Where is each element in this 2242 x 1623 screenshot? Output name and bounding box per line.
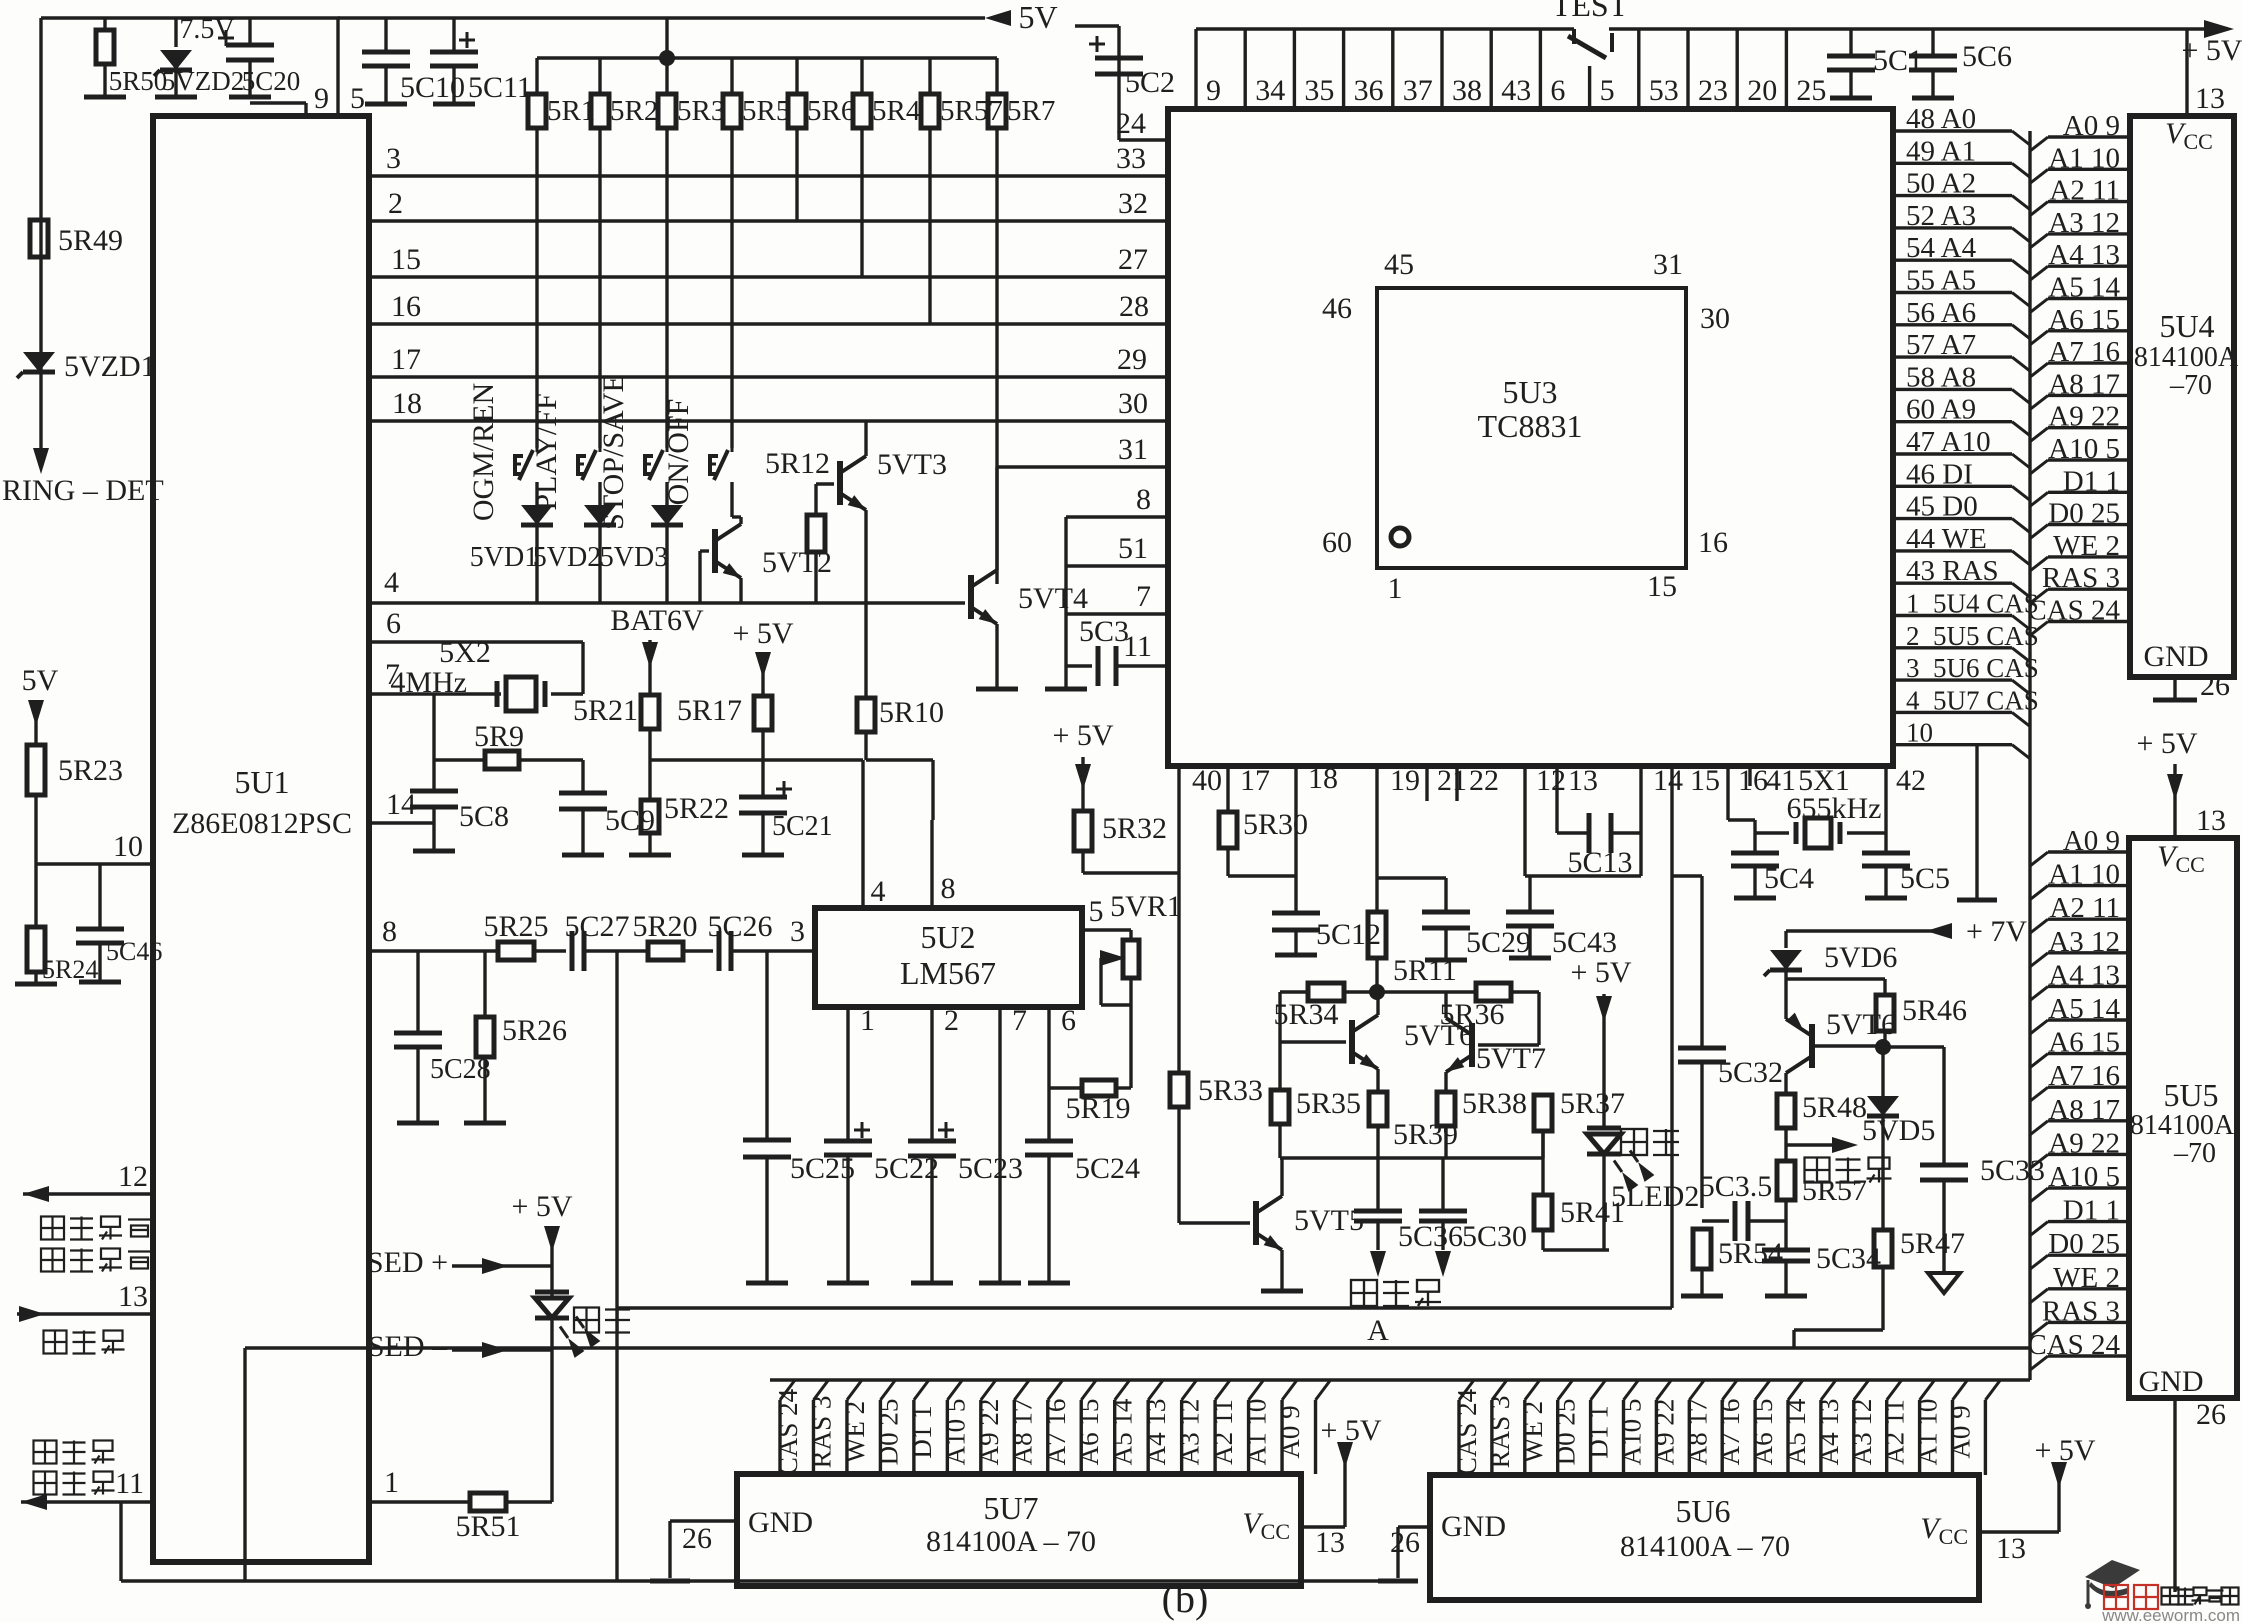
svg-text:5R21: 5R21 (573, 694, 638, 727)
wire 5VT6R emitter (1784, 979, 1787, 1019)
wire 5U2 pin7 (979, 1004, 1027, 1283)
resistor 5R23 (27, 745, 123, 864)
pin9 stub 5U1 (250, 82, 329, 116)
svg-text:30: 30 (1700, 302, 1730, 335)
diode 5VD2 (533, 482, 616, 603)
svg-text:RAS 3: RAS 3 (1485, 1396, 1515, 1469)
svg-text:11: 11 (115, 1467, 144, 1500)
svg-text:28: 28 (1119, 290, 1149, 323)
resistor 5R7 (988, 58, 1055, 128)
svg-text:814100A: 814100A (2130, 1110, 2235, 1141)
crystal 5X2 (390, 636, 545, 711)
resistor 5R19 (1049, 1080, 1131, 1125)
wire +5V LED2 (1570, 956, 1631, 1128)
svg-text:GND: GND (1441, 1510, 1506, 1543)
IC 5U3 TC8831 outer (1168, 109, 1893, 766)
wire 5U2 pin2 (932, 1004, 959, 1141)
svg-text:5R19: 5R19 (1065, 1092, 1130, 1125)
svg-text:5R10: 5R10 (879, 696, 944, 729)
svg-text:5R17: 5R17 (677, 694, 742, 727)
svg-text:+ 5V: + 5V (2136, 727, 2197, 760)
svg-text:5U1: 5U1 (234, 764, 289, 800)
svg-text:5R7: 5R7 (1007, 95, 1055, 127)
label msg-out (1351, 1280, 1441, 1306)
resistor 5R35 (1271, 1042, 1361, 1158)
svg-text:+ 5V: + 5V (1052, 719, 1113, 752)
svg-text:4MHz: 4MHz (390, 666, 467, 699)
svg-text:5R49: 5R49 (58, 224, 123, 257)
svg-text:5C3: 5C3 (1079, 615, 1129, 648)
svg-text:D0 25: D0 25 (1551, 1399, 1581, 1466)
svg-text:5C29: 5C29 (1466, 926, 1531, 959)
capacitor 5C8 (372, 788, 509, 851)
svg-text:5C30: 5C30 (1462, 1220, 1527, 1253)
wire 5C33 branch (1883, 1047, 1944, 1165)
wire 12-14 (1525, 874, 1641, 877)
wire 5U5 GND stub (2175, 1398, 2226, 1592)
svg-text:5R2: 5R2 (610, 95, 658, 127)
RING-DET arrow (2, 448, 164, 507)
IC 5U7 814100A-70 (737, 1474, 1301, 1586)
capacitor 5C29 (1422, 912, 1531, 960)
wire 5R10 bottom (866, 760, 933, 820)
svg-text:3: 3 (790, 915, 805, 948)
svg-text:5C21: 5C21 (772, 811, 833, 842)
capacitor 5C12 (1272, 913, 1381, 955)
svg-text:12: 12 (118, 1160, 148, 1193)
svg-text:16: 16 (1698, 526, 1728, 559)
svg-text:31: 31 (1118, 433, 1148, 466)
svg-text:5C46: 5C46 (106, 937, 162, 966)
wire 5C32 top jog (1672, 874, 1702, 877)
capacitor 5C30 (1419, 1158, 1527, 1277)
pin 23 5U3 top (1688, 29, 1728, 109)
svg-text:8: 8 (941, 872, 956, 905)
svg-text:1: 1 (1388, 572, 1403, 605)
svg-text:A7 16: A7 16 (1715, 1399, 1745, 1466)
resistor 5R38 (1437, 1087, 1527, 1158)
wire LED col (550, 1318, 553, 1502)
resistor 5R20 (632, 910, 713, 960)
wire 5VT7 collector (1444, 992, 1447, 1018)
svg-text:A0 9: A0 9 (1946, 1405, 1976, 1458)
switch ON/OFF (662, 399, 732, 506)
wire 5VT7 emitter (1444, 1072, 1447, 1092)
svg-text:31: 31 (1653, 248, 1683, 281)
wire 5R6 col (795, 128, 798, 221)
svg-text:A1 10: A1 10 (1242, 1399, 1272, 1466)
label (b) (1162, 1576, 1209, 1621)
svg-text:+ 5V: + 5V (2181, 34, 2242, 67)
svg-text:5R37: 5R37 (1560, 1087, 1625, 1120)
svg-text:5VD2: 5VD2 (533, 542, 601, 573)
svg-text:5C26: 5C26 (707, 910, 772, 943)
diode 5VD5 (1862, 1096, 1935, 1230)
svg-text:15: 15 (1647, 570, 1677, 603)
svg-text:19: 19 (1390, 764, 1420, 797)
svg-text:26: 26 (682, 1522, 712, 1555)
svg-text:5R57: 5R57 (1802, 1174, 1867, 1207)
wire net 16-28 (372, 290, 1168, 324)
pin 17 5U3 (1228, 764, 1270, 812)
IC 5U5 814100A-70 (2129, 838, 2237, 1398)
svg-text:5R46: 5R46 (1902, 994, 1967, 1027)
label record-control (41, 1217, 151, 1272)
resistor 5R50 (84, 18, 167, 97)
wire resistor bank bus (537, 18, 997, 66)
svg-text:5C11: 5C11 (468, 71, 532, 104)
svg-text:A6 15: A6 15 (1748, 1399, 1778, 1466)
wire 5V rail (338, 0, 1119, 35)
wire 5U6 Vcc (1979, 1434, 2096, 1565)
resistor 5R24 (15, 864, 98, 984)
svg-text:TEST: TEST (1552, 0, 1629, 23)
svg-text:8: 8 (1136, 483, 1151, 516)
svg-text:A9 22: A9 22 (1649, 1399, 1679, 1466)
svg-text:5R32: 5R32 (1102, 812, 1167, 845)
svg-text:A10 5: A10 5 (940, 1399, 970, 1466)
resistor 5R11 (1368, 912, 1457, 992)
wire 5R57 col (928, 128, 931, 324)
svg-text:WE 2: WE 2 (840, 1401, 870, 1463)
resistor 5R37 (1534, 1087, 1625, 1158)
svg-text:5VD6: 5VD6 (1824, 941, 1897, 974)
crystal 5X1 (1755, 764, 1886, 848)
svg-text:2: 2 (944, 1004, 959, 1037)
svg-text:13: 13 (1568, 764, 1598, 797)
svg-text:5R48: 5R48 (1802, 1091, 1867, 1124)
svg-text:+ 5V: + 5V (1570, 956, 1631, 989)
svg-text:5VD3: 5VD3 (600, 542, 668, 573)
capacitor 5C43 (1506, 876, 1617, 959)
svg-text:5V: 5V (22, 664, 59, 697)
wire 5VT4 collector (995, 467, 998, 570)
svg-text:814100A: 814100A (2134, 342, 2239, 373)
resistor 5R4 (853, 58, 921, 128)
wire net 7 (1066, 580, 1168, 614)
resistor 5R49 (30, 220, 123, 257)
svg-text:5VT5: 5VT5 (1294, 1204, 1364, 1237)
wire bottom rail (121, 1579, 1398, 1582)
svg-text:38: 38 (1452, 74, 1482, 107)
label +5V top right (2181, 34, 2242, 67)
svg-text:42: 42 (1896, 764, 1926, 797)
svg-text:A6 15: A6 15 (1074, 1399, 1104, 1466)
resistor 5R57b (1777, 1161, 1867, 1250)
resistor 5R54 (1681, 1229, 1783, 1296)
wire top rail left (41, 18, 340, 452)
IC 5U2 LM567 (815, 908, 1082, 1007)
svg-text:9: 9 (1206, 74, 1221, 107)
svg-text:9: 9 (314, 82, 329, 115)
transistor 5VT2 (700, 517, 832, 603)
transistor 5VT7 (1446, 1018, 1546, 1075)
pin 19 5U3 (1377, 764, 1420, 912)
svg-text:2: 2 (388, 187, 403, 220)
svg-text:A4 13: A4 13 (1814, 1399, 1844, 1466)
wire 5VT6L collector (1376, 992, 1379, 1015)
wire 5U7 Vcc (1301, 1414, 1382, 1559)
svg-text:5C8: 5C8 (459, 800, 509, 833)
svg-text:5X2: 5X2 (439, 636, 491, 669)
svg-text:5: 5 (1600, 74, 1615, 107)
svg-text:6: 6 (386, 607, 401, 640)
capacitor 5C10 (362, 18, 465, 104)
capacitor 5C9 (559, 760, 655, 855)
svg-text:34: 34 (1255, 74, 1285, 107)
wire 5VT5 collector (1280, 1158, 1283, 1196)
svg-text:32: 32 (1118, 187, 1148, 220)
pin5 stub 5U1 (338, 18, 365, 116)
svg-text:D1 1: D1 1 (907, 1405, 937, 1458)
LED playback (535, 1266, 630, 1358)
pin 41 5U3 (1750, 764, 1796, 797)
wire 5R4 col (860, 128, 863, 277)
svg-text:5VD5: 5VD5 (1862, 1114, 1935, 1147)
svg-text:6: 6 (1550, 74, 1565, 107)
wire netA long (245, 1314, 2030, 1348)
svg-text:TC8831: TC8831 (1478, 408, 1583, 444)
capacitor 5C11 (430, 18, 532, 104)
svg-text:5VZD2: 5VZD2 (162, 66, 245, 96)
resistor 5R39 (1369, 1092, 1458, 1211)
svg-text:5VR1: 5VR1 (1110, 890, 1182, 923)
resistor 5R21 (573, 694, 659, 800)
pin 5 5U3 top (TEST switch) (1590, 66, 1615, 109)
IC 5U4 814100A-70 (2130, 116, 2239, 677)
svg-text:12: 12 (1536, 764, 1566, 797)
wire 5U6 GND (1378, 1526, 1430, 1581)
svg-text:20: 20 (1747, 74, 1777, 107)
svg-text:5R9: 5R9 (474, 720, 524, 753)
svg-text:17: 17 (391, 343, 421, 376)
svg-text:3: 3 (386, 142, 401, 175)
svg-text:5U3: 5U3 (1502, 374, 1557, 410)
pin 21 5U3 (1427, 764, 1467, 801)
svg-text:5R22: 5R22 (664, 792, 729, 825)
bus rows CAS (1895, 589, 2039, 759)
watermark logo (2085, 1560, 2240, 1623)
wire 5VT4 emitter (976, 624, 1018, 689)
svg-text:23: 23 (1698, 74, 1728, 107)
svg-text:D0 25: D0 25 (873, 1399, 903, 1466)
resistor 5R2 (591, 58, 658, 128)
svg-text:5VZD1: 5VZD1 (64, 350, 156, 383)
svg-text:36: 36 (1354, 74, 1384, 107)
wire 5R21-5U2pin4 (650, 760, 886, 908)
svg-text:27: 27 (1118, 243, 1148, 276)
LED 5LED2 (1587, 1128, 1699, 1213)
pin 25 5U3 top (1786, 29, 1826, 109)
svg-text:30: 30 (1118, 387, 1148, 420)
svg-text:5R34: 5R34 (1273, 998, 1338, 1031)
svg-text:5R51: 5R51 (455, 1510, 520, 1543)
svg-text:5C20: 5C20 (242, 66, 301, 96)
svg-text:51: 51 (1118, 532, 1148, 565)
wire +7V (1786, 915, 2027, 948)
wire 5C3 col (1045, 517, 1087, 689)
pin 53 5U3 top (1639, 29, 1679, 109)
capacitor 5C25 (743, 951, 855, 1283)
svg-text:A8 17: A8 17 (1682, 1399, 1712, 1466)
pin 34 5U3 top (1245, 29, 1285, 109)
wire 5U2 pin5 (1082, 890, 1182, 930)
svg-text:OGM/REN: OGM/REN (467, 383, 500, 521)
svg-text:5C32: 5C32 (1718, 1056, 1783, 1089)
wire +5V to 5U5 (2136, 727, 2226, 838)
wire 5VT7 base (1478, 992, 1539, 1045)
wire +5V LED (511, 1190, 572, 1266)
pin 38 5U3 top (1442, 29, 1482, 109)
svg-text:5R20: 5R20 (632, 910, 697, 943)
capacitor 5C35 (1700, 1170, 1786, 1241)
svg-text:WE 2: WE 2 (1518, 1401, 1548, 1463)
wire 5V 5R23 (22, 664, 59, 745)
resistor 5R22 (629, 792, 729, 855)
wire 5VT6L emitter (1376, 1069, 1379, 1092)
pin 42 5U3 (1886, 764, 1926, 853)
diode 5VD1 (470, 482, 553, 603)
svg-text:LM567: LM567 (900, 955, 996, 991)
wire net 18-30 (372, 387, 1168, 421)
wire SED+ (367, 1246, 552, 1279)
svg-text:GND: GND (748, 1506, 813, 1539)
pin 18 5U3 (1296, 762, 1338, 913)
svg-text:5C12: 5C12 (1316, 918, 1381, 951)
switch PLAY/FF (530, 393, 600, 510)
svg-text:14: 14 (386, 788, 416, 821)
svg-text:5U5: 5U5 (2163, 1077, 2218, 1113)
wire 5U4 GND (2153, 669, 2230, 702)
wire 5VT6R base (1812, 1044, 1883, 1047)
svg-text:22: 22 (1469, 764, 1499, 797)
svg-text:5C36: 5C36 (1398, 1220, 1463, 1253)
svg-text:–70: –70 (2173, 1138, 2216, 1169)
svg-text:CAS 24: CAS 24 (773, 1388, 803, 1475)
resistor 5R51 (455, 1493, 552, 1543)
svg-text:1: 1 (860, 1004, 875, 1037)
svg-text:7: 7 (1012, 1004, 1027, 1037)
svg-text:GND: GND (2139, 1365, 2204, 1398)
pin 40 5U3 (1179, 764, 1222, 873)
resistor 5R33 (1170, 873, 1263, 1223)
capacitor 5C22 (824, 1122, 939, 1283)
wire net6 (372, 607, 583, 642)
svg-text:814100A – 70: 814100A – 70 (926, 1525, 1096, 1558)
svg-text:A4 13: A4 13 (1141, 1399, 1171, 1466)
label play-control (34, 1441, 115, 1495)
svg-text:53: 53 (1649, 74, 1679, 107)
wire TEST bus (1196, 20, 2234, 38)
wire col617 (615, 951, 618, 1581)
pins 5U6 fan (1452, 1380, 2000, 1475)
capacitor 5C34 (1762, 1242, 1881, 1296)
node 5R11 junction (1369, 984, 1385, 1000)
pin 13 5U3 (1557, 764, 1598, 833)
svg-text:814100A – 70: 814100A – 70 (1620, 1530, 1790, 1563)
svg-text:5: 5 (350, 82, 365, 115)
svg-text:5R33: 5R33 (1198, 1074, 1263, 1107)
transistor 5VT6 right (1786, 1008, 1896, 1073)
svg-text:46: 46 (1322, 292, 1352, 325)
svg-text:655kHz: 655kHz (1787, 792, 1882, 825)
svg-text:SED –: SED – (368, 1330, 448, 1363)
bus rows 5U3 to 5U4 left (1895, 103, 2030, 597)
svg-text:5C27: 5C27 (564, 910, 629, 943)
transistor 5VT5 (1179, 1196, 1364, 1250)
IC 5U3 inner die (1322, 248, 1730, 605)
svg-text:35: 35 (1304, 74, 1334, 107)
wire net 51 (1066, 532, 1168, 566)
wire LED2 col (1602, 1154, 1605, 1250)
svg-text:+ 5V: + 5V (511, 1190, 572, 1223)
wire 5U2 pin6 (1049, 1004, 1076, 1141)
svg-text:+ 5V: + 5V (732, 617, 793, 650)
svg-text:5R30: 5R30 (1243, 808, 1308, 841)
svg-text:5R1: 5R1 (547, 95, 595, 127)
wire net 15-27 (372, 243, 1168, 277)
wire 5C2 branch (1119, 26, 1168, 140)
resistor 5R48 (1777, 1091, 1867, 1161)
resistor 5R46 (1876, 994, 1967, 1047)
svg-text:5U6: 5U6 (1675, 1493, 1730, 1529)
pin 16 5U3 (1728, 764, 1768, 820)
svg-text:A3 12: A3 12 (1847, 1399, 1877, 1466)
capacitor 5C1 (1827, 29, 1923, 98)
wire 5U7 GND (650, 1521, 737, 1581)
svg-text:24: 24 (1116, 107, 1146, 140)
pin 37 5U3 top (1393, 29, 1433, 109)
wire +5V 5R32 (1052, 719, 1113, 811)
svg-text:40: 40 (1192, 764, 1222, 797)
wire BAT6V (610, 604, 704, 695)
capacitor 5C24 (1025, 1141, 1140, 1283)
capacitor 5C4 (1731, 820, 1814, 898)
svg-text:5C13: 5C13 (1567, 846, 1632, 879)
svg-text:29: 29 (1117, 343, 1147, 376)
svg-text:15: 15 (391, 243, 421, 276)
svg-text:A10 5: A10 5 (1617, 1399, 1647, 1466)
svg-text:17: 17 (1240, 764, 1270, 797)
svg-text:5C2: 5C2 (1125, 66, 1175, 99)
resistor 5R47 (1874, 1227, 1965, 1330)
wire xtal right (551, 642, 583, 694)
wire netA left leg (243, 1348, 246, 1581)
svg-text:4: 4 (384, 566, 399, 599)
svg-text:5C33: 5C33 (1980, 1154, 2045, 1187)
svg-text:5: 5 (1089, 895, 1104, 928)
wire net10 (36, 830, 153, 864)
wire net1 5U1 (369, 1466, 470, 1502)
resistor 5R17 (677, 694, 772, 797)
svg-text:5C43: 5C43 (1552, 926, 1617, 959)
resistor 5R12 (765, 447, 834, 603)
svg-text:5R26: 5R26 (502, 1014, 567, 1047)
svg-text:5VT3: 5VT3 (877, 448, 947, 481)
pin 20 5U3 top (1737, 29, 1777, 109)
svg-text:5R35: 5R35 (1296, 1087, 1361, 1120)
resistor 5R9 (434, 720, 583, 769)
wire net7 xtal (372, 658, 501, 694)
wire 5R1 col (535, 128, 538, 448)
svg-text:10: 10 (113, 830, 143, 863)
capacitor 5C5 (1862, 853, 1950, 898)
resistor 5R5 (723, 58, 790, 128)
pin 9 5U3 top (1196, 29, 1221, 109)
pin 6 5U3 top (1540, 29, 1565, 109)
svg-text:5U4: 5U4 (2159, 308, 2214, 344)
wire net11 down (119, 1502, 122, 1581)
